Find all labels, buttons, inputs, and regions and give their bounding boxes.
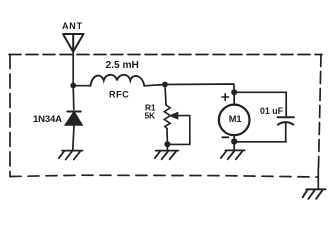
chassis dashed box right border — [319, 55, 322, 169]
capacitor C1 plates — [278, 116, 294, 118]
svg-text:1N34A: 1N34A — [33, 114, 62, 125]
ground (meter) — [221, 150, 245, 159]
svg-text:2.5 mH: 2.5 mH — [106, 60, 139, 71]
node R1-bottom junction dot — [164, 141, 170, 147]
wire node A to RFC — [73, 85, 90, 87]
wire node C to ground — [233, 142, 235, 151]
diode D1 1N34A — [66, 112, 82, 125]
node C junction dot — [231, 138, 237, 144]
svg-text:ANT: ANT — [62, 21, 83, 31]
svg-text:5K: 5K — [145, 110, 155, 120]
meter M1 — [233, 92, 235, 104]
chassis dashed box bottom border — [10, 175, 318, 177]
wire wiper loop to R1 bottom — [167, 116, 189, 145]
wire node A down to diode — [72, 86, 75, 110]
svg-text:M1: M1 — [229, 114, 242, 124]
wire node C to capacitor bottom — [234, 141, 286, 143]
wire R1 bottom to ground — [166, 144, 168, 150]
wire RFC to node B — [144, 85, 165, 86]
label - polarity — [222, 136, 228, 138]
antenna symbol — [63, 34, 84, 52]
wire node B to meter top corner — [165, 84, 234, 92]
wire meter top to capacitor corner — [234, 92, 286, 116]
wire node B down to R1 — [165, 85, 166, 106]
node A junction dot — [70, 83, 76, 89]
wire chassis to earth ground stem — [317, 168, 319, 189]
chassis dashed box top border — [9, 54, 322, 56]
chassis dashed box left border — [9, 55, 11, 177]
wire antenna down to node A — [72, 52, 74, 86]
ground (R1) — [155, 151, 179, 160]
node meter-top junction dot — [231, 89, 237, 95]
wire capacitor bottom lead — [285, 124, 287, 142]
svg-text:RFC: RFC — [109, 90, 129, 100]
ground (diode) — [59, 151, 83, 160]
node B junction dot — [162, 82, 168, 88]
wire meter bottom to node C — [233, 135, 235, 141]
label + polarity — [222, 94, 229, 101]
wire diode to ground — [73, 125, 74, 150]
svg-text:01 uF: 01 uF — [260, 106, 284, 116]
earth ground (bottom right) — [303, 189, 326, 199]
wire R1 bottom — [166, 129, 168, 145]
potentiometer wiper arrow — [171, 113, 178, 119]
resistor R1 5K potentiometer zigzag — [164, 105, 170, 129]
inductor RFC 2.5mH — [91, 75, 145, 86]
